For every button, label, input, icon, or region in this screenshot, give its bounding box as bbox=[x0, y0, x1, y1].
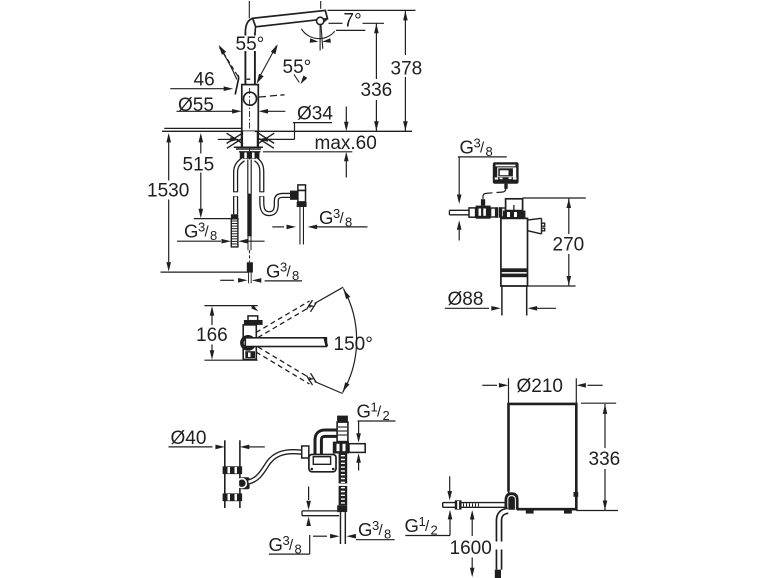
cross fitting bbox=[333, 442, 349, 454]
lever horizontal dashes bbox=[259, 95, 285, 97]
valve fittings bbox=[491, 207, 506, 218]
boiler outlet hose bbox=[499, 511, 508, 570]
filter head flange bbox=[503, 211, 526, 219]
braided hose upper bbox=[339, 454, 348, 484]
faucet body bbox=[242, 79, 258, 131]
dimension max.60 bbox=[263, 107, 377, 178]
svg-text:Ø210: Ø210 bbox=[517, 376, 563, 397]
label G3/8 left hose bbox=[177, 220, 265, 244]
drain side outlet bbox=[237, 477, 249, 489]
svg-text:336: 336 bbox=[589, 449, 621, 470]
dimension 336 boiler bbox=[576, 403, 623, 510]
left hose braided end bbox=[231, 219, 238, 247]
spout outlet joint bbox=[317, 17, 324, 24]
right stub pipe bbox=[349, 444, 365, 453]
thin side pipe bbox=[302, 511, 339, 516]
svg-text:515: 515 bbox=[183, 155, 215, 176]
svg-text:G: G bbox=[460, 137, 474, 158]
hose fitting bbox=[337, 505, 347, 512]
lever rotated position left bbox=[219, 45, 238, 80]
body centerline bbox=[249, 88, 251, 160]
dimension 515 bbox=[183, 133, 238, 219]
lever handle bbox=[235, 75, 238, 95]
label G3/8 side pipe bbox=[269, 487, 311, 557]
svg-text:G: G bbox=[319, 207, 333, 228]
label G1/2 boiler pipe bbox=[405, 476, 453, 537]
mounting nut bbox=[240, 152, 260, 159]
svg-text:166: 166 bbox=[196, 325, 228, 346]
label 150 deg bbox=[334, 334, 373, 355]
dimension 166 bbox=[196, 305, 258, 360]
braided hose lower bbox=[339, 486, 348, 505]
mounting clamp hatch left bbox=[227, 133, 243, 149]
boiler inlet elbow bbox=[505, 492, 519, 510]
label G1/2 valve bbox=[356, 400, 395, 471]
svg-text:Ø40: Ø40 bbox=[171, 428, 207, 449]
boiler body bbox=[509, 404, 577, 509]
check valve fitting bbox=[297, 185, 307, 245]
filter head top bbox=[506, 199, 523, 211]
dimension 336 bbox=[329, 23, 395, 131]
extension line spout center bbox=[248, 1, 250, 18]
label G3/8 vertical tube bbox=[313, 518, 395, 542]
drain nut lower bbox=[223, 493, 243, 501]
sensor tee block bbox=[476, 199, 491, 219]
7 deg swing arc bbox=[301, 24, 334, 50]
dimension dia 55 bbox=[177, 95, 286, 116]
svg-text:1530: 1530 bbox=[147, 181, 189, 202]
hose box connector bbox=[302, 446, 309, 458]
swivel arm position lower bbox=[256, 347, 343, 394]
digital display unit bbox=[493, 162, 519, 189]
drain hose bbox=[249, 452, 303, 482]
spout outlet pivot line bbox=[321, 24, 323, 49]
dimension 378 bbox=[328, 10, 423, 131]
spout riser bbox=[245, 33, 255, 85]
svg-text:55°: 55° bbox=[283, 57, 312, 78]
filter inlet pipe bbox=[449, 210, 470, 215]
wall bracket bbox=[520, 218, 545, 234]
label 7 deg bbox=[336, 11, 365, 32]
valve elbow pipe bbox=[318, 433, 337, 455]
label G3/8 center hose bbox=[220, 260, 302, 284]
body ball joint bbox=[244, 92, 257, 105]
label 55 deg left bbox=[234, 34, 267, 55]
dimension dia 210 bbox=[482, 376, 602, 403]
svg-text:G: G bbox=[357, 401, 371, 422]
label G3/8 filter inlet bbox=[457, 136, 507, 241]
center hose bbox=[247, 160, 253, 284]
svg-text:46: 46 bbox=[194, 70, 215, 91]
dimension dia 88 bbox=[445, 289, 556, 311]
boiler supply pipe bbox=[443, 500, 505, 509]
svg-text:Ø34: Ø34 bbox=[297, 104, 333, 125]
angle valve elbow bbox=[290, 191, 298, 200]
smooth tube lower bbox=[340, 512, 346, 544]
cartridge label bands bbox=[501, 268, 528, 277]
dimension 270 bbox=[501, 198, 589, 286]
sensor cable bbox=[483, 184, 506, 199]
dimension dia 34 bbox=[218, 104, 334, 142]
svg-text:G: G bbox=[358, 519, 372, 540]
swivel arm position upper bbox=[256, 287, 343, 337]
boiler feet bbox=[526, 511, 572, 514]
svg-text:150°: 150° bbox=[334, 334, 373, 355]
lever rotated position right bbox=[257, 44, 278, 84]
label 55 deg right bbox=[283, 57, 312, 84]
filter cartridge bbox=[501, 218, 528, 315]
svg-text:55°: 55° bbox=[236, 34, 265, 55]
side view lower block bbox=[245, 351, 255, 358]
dimension 46 bbox=[170, 70, 233, 92]
svg-text:G: G bbox=[266, 261, 280, 282]
control valve box bbox=[309, 455, 336, 472]
base flange bbox=[234, 147, 263, 152]
svg-text:G: G bbox=[269, 534, 283, 555]
svg-text:270: 270 bbox=[553, 235, 585, 256]
svg-text:Ø88: Ø88 bbox=[448, 289, 484, 310]
svg-text:G: G bbox=[184, 221, 198, 242]
side view lever bbox=[244, 320, 263, 325]
hose end fitting bbox=[495, 570, 501, 578]
mounting clamp hatch right bbox=[258, 133, 274, 149]
150 deg arc bbox=[343, 289, 357, 393]
svg-text:Ø55: Ø55 bbox=[178, 95, 214, 116]
label G3/8 right valve bbox=[272, 206, 367, 230]
shank through counter bbox=[242, 131, 258, 147]
side view spout arm bbox=[245, 338, 327, 347]
drain tee pipe bbox=[225, 440, 240, 508]
svg-text:G: G bbox=[405, 515, 419, 536]
counter top line bbox=[162, 130, 412, 132]
left hose nut bbox=[231, 214, 238, 219]
extension line outlet top bbox=[320, 1, 322, 9]
base seat line bbox=[164, 127, 241, 129]
svg-text:378: 378 bbox=[391, 59, 423, 80]
boiler side knob bbox=[574, 492, 579, 497]
side view body bbox=[243, 325, 256, 360]
inlet fitting bbox=[469, 208, 476, 217]
faucet spout arm bbox=[245, 10, 327, 32]
svg-text:1600: 1600 bbox=[450, 538, 492, 559]
dimension 1530 bbox=[147, 133, 250, 272]
dimension dia 40 bbox=[169, 428, 265, 449]
svg-text:7°: 7° bbox=[344, 11, 362, 32]
side view body bottom bbox=[243, 359, 257, 361]
svg-text:336: 336 bbox=[361, 80, 393, 101]
svg-text:max.60: max.60 bbox=[315, 133, 377, 154]
left supply hose bbox=[233, 159, 243, 214]
filter locking ring bbox=[509, 220, 519, 230]
dimension 1600 bbox=[450, 510, 492, 577]
drain nut upper bbox=[223, 466, 243, 474]
swivel collar ring bbox=[242, 337, 254, 349]
right supply hose bbox=[256, 159, 292, 213]
valve top fitting bbox=[337, 416, 348, 442]
side view top nub bbox=[248, 316, 258, 321]
